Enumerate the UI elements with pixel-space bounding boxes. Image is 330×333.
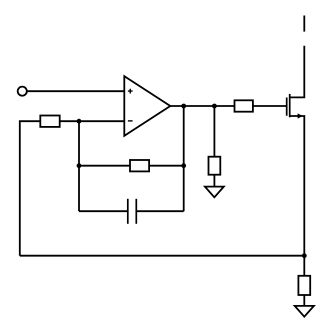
capacitor C1 xyxy=(128,199,137,224)
node feedback right junction xyxy=(181,163,186,168)
resistor R4 (pulldown) xyxy=(209,157,221,175)
transistor Q1 xyxy=(287,46,305,256)
wire output node down to feedback xyxy=(183,106,185,211)
wire R1 to op-amp minus xyxy=(60,120,125,122)
wire junction to R5 xyxy=(303,256,305,276)
node pulldown junction xyxy=(212,104,217,109)
wire R5 to ground xyxy=(303,295,305,306)
input terminal xyxy=(18,87,27,96)
node output junction xyxy=(181,104,186,109)
wire input to op-amp + xyxy=(27,90,125,92)
ground (source) xyxy=(295,306,314,317)
wire pulldown resistor to ground xyxy=(213,175,215,187)
resistor R2 (feedback) xyxy=(130,160,149,171)
ground (pulldown) xyxy=(205,187,224,198)
wire pulldown node down xyxy=(213,106,215,157)
wire op-amp output row xyxy=(170,105,234,107)
wire inverting node down xyxy=(78,121,80,211)
wire R2 to right node xyxy=(149,165,184,167)
wire bottom rail xyxy=(20,255,305,257)
resistor R1 (inverting input) xyxy=(40,116,59,127)
wire capacitor to right side xyxy=(136,210,183,212)
resistor R5 (source) xyxy=(298,276,310,295)
resistor R3 (gate series) xyxy=(235,100,253,111)
wire left node to R2 xyxy=(79,165,130,167)
node source junction xyxy=(302,253,307,258)
wire resistor to gate xyxy=(253,105,286,107)
wire drain stub (top) xyxy=(303,16,305,32)
node feedback left junction xyxy=(77,163,82,168)
node inverting input junction xyxy=(77,119,82,124)
op-amp U1 xyxy=(124,76,170,136)
wire left feedback corner xyxy=(20,121,41,256)
wire bottom feedback left to capacitor xyxy=(79,210,128,212)
